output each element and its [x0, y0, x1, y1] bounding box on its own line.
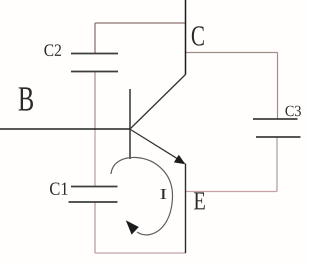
label I (loop current): [160, 189, 166, 199]
wire red bottom horizontal (C1 to emitter line): [95, 252, 186, 254]
label C1: [50, 183, 68, 196]
transistor Q1 collector diagonal: [131, 75, 186, 129]
capacitor C2 bottom plate: [71, 71, 118, 73]
transistor Q1 base bar: [129, 89, 131, 159]
transistor Q1 emitter diagonal: [131, 130, 185, 163]
node label E: [194, 192, 205, 209]
wire emitter vertical (E down to bottom corner): [185, 164, 187, 254]
node label C: [192, 26, 204, 45]
wire collector vertical (top edge down): [185, 0, 187, 75]
wire red emitter branch horizontal (E node to C3 leg): [186, 191, 277, 193]
wire red top horizontal (C2 top to collector line): [95, 22, 186, 24]
label C2: [44, 44, 61, 56]
capacitor C2 top plate: [71, 53, 118, 55]
wire base horizontal (left edge to base bar): [0, 128, 130, 130]
node label B: [19, 87, 33, 110]
capacitor C3 top plate: [253, 118, 298, 120]
current loop arrowhead: [126, 220, 139, 234]
label C3: [286, 106, 301, 117]
wire red C3 bottom lead: [276, 137, 278, 192]
wire red collector branch horizontal (C node to C3): [186, 52, 278, 54]
capacitor C1 bottom plate: [69, 201, 118, 203]
wire red left vertical (top corner down to C2 top plate): [94, 23, 96, 54]
wire red C2 bottom lead to base wire: [94, 72, 96, 130]
wire red C1 top lead from base wire: [94, 130, 96, 187]
current loop arc I: [111, 157, 173, 234]
wire red C3 top lead: [277, 53, 279, 120]
wire red C1 bottom lead down: [94, 202, 96, 253]
capacitor C1 top plate: [71, 186, 118, 188]
transistor Q1 emitter arrowhead: [174, 155, 186, 164]
capacitor C3 bottom plate: [256, 136, 301, 138]
